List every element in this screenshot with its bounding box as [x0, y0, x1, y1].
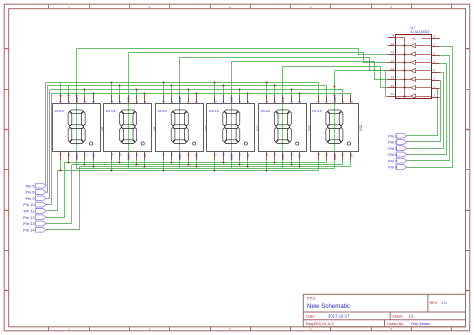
svg-text:2017-12-17: 2017-12-17 — [328, 314, 350, 319]
svg-text:Pin 10: Pin 10 — [23, 202, 35, 207]
svg-text:A: A — [238, 101, 242, 103]
svg-text:GND: GND — [75, 154, 79, 160]
svg-text:4: 4 — [433, 68, 435, 72]
svg-text:Pin 9: Pin 9 — [25, 196, 35, 201]
U7 right pins 1-8 — [432, 35, 440, 98]
svg-text:E: E — [110, 153, 114, 155]
svg-text:U13: U13 — [359, 125, 363, 131]
svg-text:D: D — [325, 154, 329, 156]
svg-text:GND: GND — [281, 154, 285, 160]
svg-text:D: D — [67, 154, 71, 156]
wire segment bus bottom rails — [57, 163, 351, 171]
svg-text:DS-S-8: DS-S-8 — [55, 109, 65, 113]
7-segment display U8 — [53, 95, 106, 160]
IC U7 ULN2003 body — [396, 26, 432, 99]
svg-text:DP: DP — [195, 153, 199, 157]
svg-text:A: A — [290, 101, 294, 103]
netflag Pin 4 — [388, 152, 407, 157]
svg-text:E: E — [265, 153, 269, 155]
svg-text:E: E — [316, 153, 320, 155]
svg-text:TITLE:: TITLE: — [306, 297, 316, 301]
7-segment display U11 — [207, 95, 260, 160]
svg-text:C: C — [186, 154, 190, 156]
svg-text:Your Name: Your Name — [411, 321, 432, 326]
svg-text:B: B — [246, 101, 250, 103]
svg-text:A: A — [5, 47, 7, 51]
svg-text:D: D — [467, 289, 469, 293]
svg-text:GND: GND — [178, 97, 182, 103]
svg-text:E: E — [162, 153, 166, 155]
svg-text:B: B — [195, 101, 199, 103]
netflag Pin 3 — [388, 146, 407, 151]
7-segment display U13 — [311, 95, 364, 160]
svg-text:Pin 11: Pin 11 — [24, 209, 36, 214]
netflag Pin 12 — [23, 215, 46, 220]
netflag Pin 1 — [388, 133, 407, 138]
svg-text:A: A — [341, 101, 345, 103]
netflag Pin 14 — [23, 227, 46, 232]
svg-text:GND: GND — [127, 154, 131, 160]
svg-text:DS-S-8: DS-S-8 — [312, 109, 322, 113]
svg-text:C: C — [290, 154, 294, 156]
svg-text:GND: GND — [178, 154, 182, 160]
wire digit common rails to ULN2003 — [77, 49, 388, 97]
svg-text:GND: GND — [281, 97, 285, 103]
svg-text:F: F — [170, 101, 174, 103]
svg-text:G: G — [162, 101, 166, 103]
svg-text:C: C — [467, 208, 469, 212]
svg-text:D: D — [118, 154, 122, 156]
svg-text:G: G — [316, 101, 320, 103]
svg-text:DP: DP — [298, 153, 302, 157]
svg-text:E: E — [59, 153, 63, 155]
svg-text:Pin 7: Pin 7 — [388, 158, 398, 163]
svg-text:Pin 1: Pin 1 — [388, 133, 398, 138]
svg-text:Pin 2: Pin 2 — [388, 140, 398, 145]
svg-text:9: 9 — [392, 33, 394, 37]
svg-text:G: G — [59, 101, 63, 103]
netflag Pin 9 — [25, 196, 46, 201]
U7 left pins 9-16 — [388, 33, 396, 96]
svg-text:F: F — [118, 101, 122, 103]
svg-text:DP: DP — [246, 153, 250, 157]
svg-text:C: C — [135, 154, 139, 156]
svg-text:Pin 5: Pin 5 — [25, 183, 35, 188]
svg-text:B: B — [143, 101, 147, 103]
svg-text:REV:: REV: — [430, 301, 438, 305]
junction dots display pins — [60, 82, 336, 172]
svg-text:DS-S-8: DS-S-8 — [209, 109, 219, 113]
svg-text:G: G — [110, 101, 114, 103]
svg-text:U7: U7 — [411, 26, 416, 30]
wire display top segment pin drops — [61, 82, 351, 103]
wire segment bus top rails — [46, 83, 351, 94]
svg-text:B: B — [92, 101, 96, 103]
svg-text:Pin 6: Pin 6 — [25, 190, 35, 195]
svg-text:DS-S-8: DS-S-8 — [261, 109, 271, 113]
svg-text:B: B — [467, 128, 469, 132]
netflag Pin 11 — [24, 209, 47, 214]
svg-text:C: C — [83, 154, 87, 156]
frame row letters — [5, 47, 468, 293]
svg-text:DS-S-8: DS-S-8 — [158, 109, 168, 113]
7-segment display U9 — [104, 95, 157, 160]
U7 internal darlington channels — [396, 37, 432, 99]
svg-text:1: 1 — [433, 94, 435, 98]
svg-text:1/1: 1/1 — [409, 315, 414, 319]
svg-text:GND: GND — [75, 97, 79, 103]
svg-text:DP: DP — [349, 153, 353, 157]
netflag Pin 7 — [388, 158, 407, 163]
svg-text:F: F — [273, 101, 277, 103]
svg-text:12: 12 — [391, 59, 395, 63]
svg-text:Pin 3: Pin 3 — [388, 146, 398, 151]
svg-text:Pin 13: Pin 13 — [23, 221, 35, 226]
svg-text:D: D — [170, 154, 174, 156]
netflag Pin 13 — [23, 221, 46, 226]
svg-text:Pin 8: Pin 8 — [388, 165, 398, 170]
7-segment display U12 — [259, 95, 312, 160]
svg-text:D: D — [273, 154, 277, 156]
svg-text:DP: DP — [92, 153, 96, 157]
wire ULN2003 outputs to right netflags — [407, 47, 453, 168]
wire left netflag risers — [46, 83, 80, 230]
svg-text:16: 16 — [391, 92, 395, 96]
svg-text:DP: DP — [143, 153, 147, 157]
netflag Pin 8 — [388, 165, 407, 170]
svg-text:D: D — [222, 154, 226, 156]
svg-text:B: B — [5, 128, 7, 132]
svg-text:GND: GND — [333, 97, 337, 103]
7-segment display U10 — [156, 95, 209, 160]
svg-text:A: A — [135, 101, 139, 103]
netflag Pin 10 — [23, 202, 46, 207]
svg-text:GND: GND — [127, 97, 131, 103]
svg-text:B: B — [298, 101, 302, 103]
svg-text:1.0: 1.0 — [441, 301, 446, 305]
svg-text:New Schematic: New Schematic — [307, 303, 350, 310]
svg-text:14: 14 — [391, 75, 395, 79]
svg-text:Pin 4: Pin 4 — [388, 152, 398, 157]
svg-text:IC ULN2003: IC ULN2003 — [411, 30, 430, 34]
svg-text:6: 6 — [433, 52, 435, 56]
svg-text:G: G — [265, 101, 269, 103]
title block — [303, 294, 465, 327]
svg-text:11: 11 — [391, 50, 394, 54]
svg-text:A: A — [467, 47, 469, 51]
svg-text:G: G — [213, 101, 217, 103]
netflag Pin 5 — [25, 183, 46, 188]
svg-text:Drawn By:: Drawn By: — [387, 322, 404, 326]
svg-text:Date:: Date: — [306, 315, 315, 319]
svg-text:C: C — [5, 208, 7, 212]
svg-text:C: C — [238, 154, 242, 156]
svg-text:Sheet:: Sheet: — [392, 315, 403, 319]
svg-text:C: C — [341, 154, 345, 156]
svg-text:GND: GND — [230, 97, 234, 103]
svg-text:A: A — [186, 101, 190, 103]
svg-text:A: A — [83, 101, 87, 103]
svg-text:Pin 14: Pin 14 — [23, 227, 35, 232]
svg-text:D: D — [5, 289, 7, 293]
frame column numbers — [68, 5, 392, 331]
svg-text:GND: GND — [333, 154, 337, 160]
svg-text:DS-S-8: DS-S-8 — [106, 109, 116, 113]
svg-text:Pin 12: Pin 12 — [23, 215, 35, 220]
svg-text:10: 10 — [391, 42, 395, 46]
svg-text:EasyEDA V4.11.9: EasyEDA V4.11.9 — [306, 322, 334, 326]
wire display bottom segment pin drops — [61, 152, 351, 171]
svg-text:E: E — [213, 153, 217, 155]
svg-text:13: 13 — [391, 67, 395, 71]
wire display GND verticals — [77, 49, 335, 169]
svg-text:B: B — [349, 101, 353, 103]
svg-text:15: 15 — [391, 84, 395, 88]
netflag Pin 6 — [25, 190, 46, 195]
netflag Pin 2 — [388, 140, 407, 145]
svg-text:GND: GND — [230, 154, 234, 160]
